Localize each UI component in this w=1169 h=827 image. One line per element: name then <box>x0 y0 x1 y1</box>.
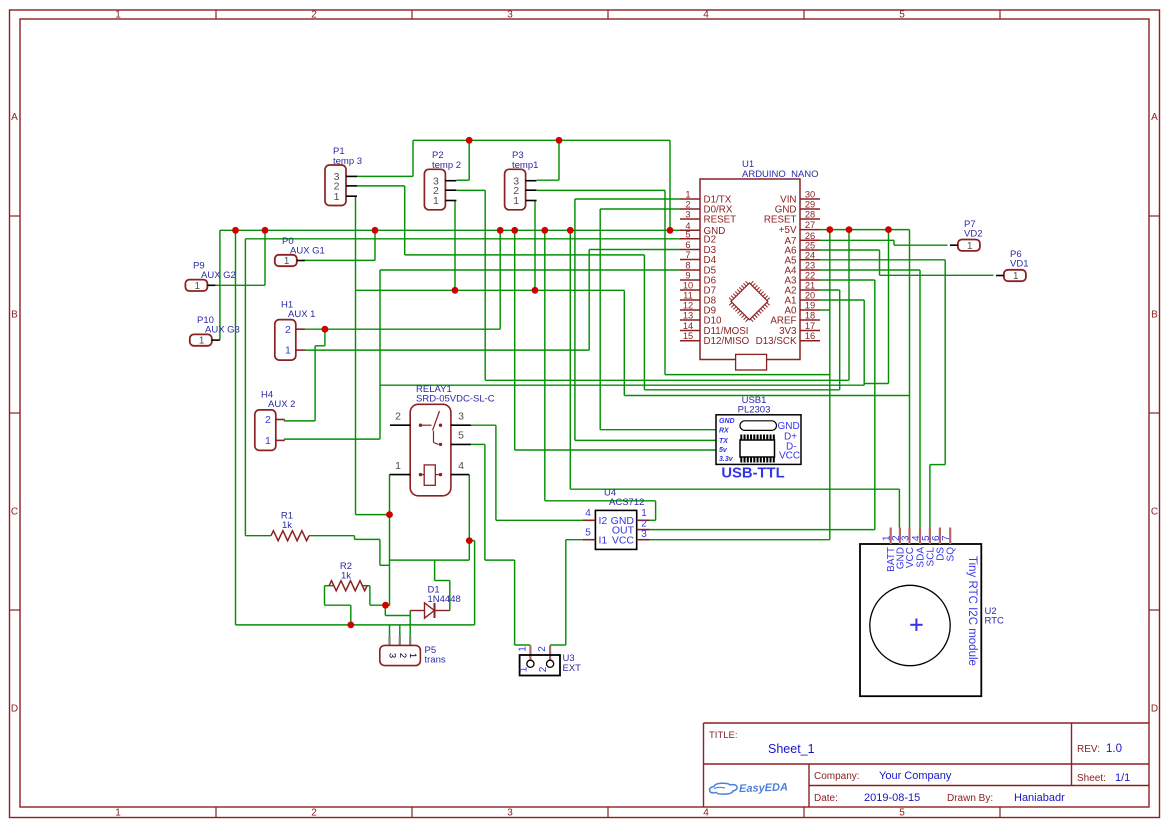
svg-text:2: 2 <box>311 10 317 21</box>
USB-TTL label <box>721 466 784 482</box>
connector P9 (AUX G2) <box>185 280 215 292</box>
svg-text:3: 3 <box>507 10 513 21</box>
svg-text:5: 5 <box>899 808 905 819</box>
svg-text:Date:: Date: <box>814 793 838 804</box>
P1 labels <box>333 146 362 167</box>
svg-text:1N4448: 1N4448 <box>428 594 461 605</box>
frame row labels <box>11 112 1158 715</box>
wire A7 to P7 <box>820 240 948 245</box>
svg-text:VD1: VD1 <box>1010 259 1028 270</box>
P9 labels <box>193 261 236 282</box>
svg-text:Sheet_1: Sheet_1 <box>768 742 815 756</box>
svg-text:7: 7 <box>685 250 690 260</box>
svg-text:I2: I2 <box>599 515 608 527</box>
wire R2 right net <box>363 586 390 606</box>
svg-text:19: 19 <box>805 301 815 311</box>
svg-text:1: 1 <box>199 336 204 347</box>
svg-text:13: 13 <box>683 311 693 321</box>
svg-text:D: D <box>1151 704 1158 715</box>
svg-text:1: 1 <box>115 10 121 21</box>
connector U3 EXT <box>517 645 560 675</box>
wire A5 to RTC SCL <box>820 260 945 528</box>
wire USB 5v net <box>515 230 716 450</box>
svg-text:5: 5 <box>899 10 905 21</box>
svg-text:TITLE:: TITLE: <box>709 730 738 741</box>
svg-text:2: 2 <box>537 646 548 652</box>
U2 plus mark <box>910 619 922 632</box>
frame column labels <box>115 10 905 819</box>
svg-text:EXT: EXT <box>563 663 582 674</box>
svg-text:1: 1 <box>518 666 529 672</box>
svg-text:20: 20 <box>805 291 815 301</box>
wire R1 right jog <box>309 536 390 566</box>
wire P3.1 riser <box>534 201 536 291</box>
svg-text:AUX 2: AUX 2 <box>268 399 295 410</box>
P6 labels <box>1010 249 1028 270</box>
svg-text:3: 3 <box>387 653 398 658</box>
wire D2 / R1 bus <box>245 239 680 536</box>
USB1 chip glyph <box>740 435 775 463</box>
svg-text:C: C <box>11 507 18 518</box>
U1 labels <box>742 159 819 180</box>
svg-text:SRD-05VDC-SL-C: SRD-05VDC-SL-C <box>416 394 495 405</box>
wire P0 AUX G1 net <box>303 230 375 260</box>
U2 battery circle <box>870 585 950 665</box>
U1 chip glyph (rotated QFP) <box>725 277 773 325</box>
svg-text:26: 26 <box>805 231 815 241</box>
wire P1.2 wire <box>357 186 645 255</box>
svg-text:5: 5 <box>585 528 591 539</box>
svg-text:A: A <box>11 112 18 123</box>
svg-text:2: 2 <box>641 519 647 530</box>
svg-text:1k: 1k <box>282 520 292 531</box>
svg-text:D10: D10 <box>704 316 723 327</box>
relay RELAY1 SRD-05VDC-SL-C body <box>410 404 451 496</box>
svg-text:3: 3 <box>458 411 464 423</box>
svg-text:1: 1 <box>641 508 647 519</box>
connector P6 (VD1) <box>996 270 1026 282</box>
svg-text:AUX G3: AUX G3 <box>205 325 240 336</box>
USB1 labels <box>738 395 771 416</box>
svg-text:28: 28 <box>805 210 815 220</box>
wire A2 to P1.2 net <box>644 255 839 390</box>
svg-text:22: 22 <box>805 271 815 281</box>
EasyEDA logo <box>709 781 788 796</box>
wire net top bus (P1.3/P2.3/P3.3) <box>413 140 670 230</box>
wire H1.2 net <box>304 230 500 345</box>
svg-text:1/1: 1/1 <box>1115 772 1130 784</box>
R2 labels <box>340 561 352 582</box>
svg-text:1: 1 <box>407 653 418 658</box>
svg-text:Your Company: Your Company <box>879 770 952 782</box>
U2 pin stubs <box>891 528 951 545</box>
svg-text:GND: GND <box>778 421 800 432</box>
svg-text:1: 1 <box>395 460 401 472</box>
svg-text:B: B <box>1151 310 1158 321</box>
svg-text:AUX G1: AUX G1 <box>290 246 325 257</box>
resistor R1 1k <box>271 531 309 541</box>
RELAY1 labels <box>416 384 495 405</box>
P0 labels <box>282 236 325 257</box>
wire A4 to RTC SDA <box>820 270 920 528</box>
wire GND to RTC <box>570 230 899 527</box>
wire relay pin1 drop <box>389 475 391 606</box>
svg-text:5v: 5v <box>719 447 728 454</box>
svg-text:7: 7 <box>941 535 952 541</box>
svg-text:29: 29 <box>805 200 815 210</box>
wire +5V row <box>820 229 910 231</box>
svg-text:SQ: SQ <box>946 547 957 562</box>
svg-text:21: 21 <box>805 281 815 291</box>
svg-text:EasyEDA: EasyEDA <box>739 781 788 795</box>
resistor R2 1k <box>329 581 367 591</box>
svg-text:D2: D2 <box>704 234 717 245</box>
P5 labels <box>425 645 446 666</box>
svg-text:1: 1 <box>115 808 121 819</box>
wire R2 left to GND bus <box>325 586 351 625</box>
svg-text:3.3v: 3.3v <box>719 456 734 463</box>
U2 module name <box>966 556 978 666</box>
svg-text:D12/MISO: D12/MISO <box>704 336 750 347</box>
wire relay pin5 to U3.1 <box>471 444 531 645</box>
svg-text:17: 17 <box>805 321 815 331</box>
svg-text:1: 1 <box>517 646 528 652</box>
wire GND bus lower <box>236 625 475 636</box>
P2 labels <box>432 150 461 171</box>
wire P2.1 riser <box>454 201 456 291</box>
svg-text:RESET: RESET <box>704 215 737 226</box>
wire bus-625 riser <box>235 230 237 625</box>
IC U4 ACS712 body <box>595 510 636 549</box>
op-amp U1 ARDUINO_NANO body <box>700 179 800 360</box>
svg-text:ARDUINO_NANO: ARDUINO_NANO <box>742 169 819 180</box>
svg-text:ACS712: ACS712 <box>609 497 644 508</box>
wire P10 riser to GND bus <box>219 230 221 340</box>
wire P2.3 wire <box>457 140 470 180</box>
svg-text:18: 18 <box>805 311 815 321</box>
svg-text:VCC: VCC <box>612 535 635 547</box>
svg-text:4: 4 <box>585 508 591 519</box>
svg-text:2: 2 <box>311 808 317 819</box>
P7 labels <box>964 219 982 240</box>
svg-text:25: 25 <box>805 241 815 251</box>
svg-text:temp 2: temp 2 <box>432 160 461 171</box>
svg-text:3: 3 <box>901 535 912 541</box>
svg-text:Sheet:: Sheet: <box>1077 773 1106 784</box>
svg-text:RESET: RESET <box>764 215 797 226</box>
svg-text:30: 30 <box>805 190 815 200</box>
RELAY1 coil <box>419 465 442 485</box>
svg-text:D4: D4 <box>704 255 717 266</box>
wire A3 to U4 OUT <box>650 280 875 530</box>
wire P2.2 wire to A2 <box>457 190 849 380</box>
svg-text:temp1: temp1 <box>512 160 538 171</box>
wire P1.3 wire <box>357 175 414 177</box>
svg-text:27: 27 <box>805 220 815 230</box>
wire GND to U4 <box>545 230 656 520</box>
svg-text:1: 1 <box>194 281 199 292</box>
wire R1 left lead <box>245 535 271 537</box>
svg-text:8: 8 <box>685 261 690 271</box>
wire +5V drop 888 <box>864 230 888 384</box>
svg-text:trans: trans <box>425 655 446 666</box>
connector H1 (AUX 1) <box>275 320 305 361</box>
D1 labels <box>428 585 461 606</box>
svg-text:1: 1 <box>1013 271 1018 282</box>
wire P3.2 wire <box>537 190 830 374</box>
svg-text:RX: RX <box>719 428 730 435</box>
connector H4 (AUX 2) <box>255 410 285 451</box>
U2 pin names <box>886 547 957 572</box>
svg-text:+5V: +5V <box>779 225 797 236</box>
svg-text:VCC: VCC <box>779 451 800 462</box>
wire +5V drop 849 <box>848 230 850 381</box>
svg-text:6: 6 <box>685 240 690 250</box>
svg-text:2: 2 <box>397 653 408 658</box>
H4 labels <box>261 390 295 411</box>
USB1 connector pill <box>740 421 777 431</box>
title block texts <box>709 730 1130 804</box>
wire USB TX net <box>575 199 716 440</box>
svg-text:1: 1 <box>967 241 972 252</box>
connector P10 (AUX G3) <box>190 334 220 346</box>
svg-text:15: 15 <box>683 331 693 341</box>
U1 pins <box>680 190 820 348</box>
svg-text:24: 24 <box>805 250 815 260</box>
svg-text:2019-08-15: 2019-08-15 <box>864 792 920 804</box>
P10 labels <box>197 315 240 336</box>
svg-text:1.0: 1.0 <box>1106 743 1122 755</box>
svg-text:Drawn By:: Drawn By: <box>947 793 993 804</box>
svg-text:D13/SCK: D13/SCK <box>756 336 797 347</box>
module U2 RTC body <box>860 544 981 696</box>
svg-text:GND: GND <box>719 418 735 425</box>
svg-text:AUX G2: AUX G2 <box>201 270 236 281</box>
svg-text:AREF: AREF <box>770 316 796 327</box>
wire H1.1 to D3 <box>304 250 680 351</box>
U4 pins <box>583 508 650 547</box>
svg-text:REV:: REV: <box>1077 744 1100 755</box>
wire H4.1 / D5 / A1 net <box>284 270 864 439</box>
U4 labels <box>604 488 644 509</box>
svg-text:3: 3 <box>685 210 690 220</box>
wire A6 to P6 <box>820 250 994 275</box>
svg-text:2: 2 <box>395 411 401 423</box>
svg-text:USB-TTL: USB-TTL <box>721 466 784 482</box>
diode D1 1N4448 <box>410 603 450 618</box>
svg-text:1: 1 <box>285 345 291 357</box>
wire P3.3 wire <box>537 140 559 180</box>
wire GND bus <box>220 229 680 231</box>
svg-text:VCC: VCC <box>905 547 916 568</box>
wire P9 riser <box>264 230 266 285</box>
svg-text:AUX 1: AUX 1 <box>288 309 315 320</box>
P3 labels <box>512 150 538 171</box>
svg-text:D: D <box>11 704 18 715</box>
U1 usb tab <box>736 354 767 370</box>
svg-text:12: 12 <box>683 301 693 311</box>
wire P9 wire <box>215 284 265 286</box>
svg-text:1k: 1k <box>341 571 351 582</box>
svg-text:Company:: Company: <box>814 771 860 782</box>
svg-text:1: 1 <box>433 195 439 207</box>
wire VCC bus 290 <box>356 290 910 395</box>
svg-text:Tiny RTC I2C module: Tiny RTC I2C module <box>966 556 978 666</box>
svg-text:TX: TX <box>719 438 729 445</box>
wire A0 wire <box>820 309 830 311</box>
svg-text:C: C <box>1151 507 1158 518</box>
wire +5V to RTC VCC <box>909 230 911 528</box>
U2 pin numbers <box>882 535 953 541</box>
svg-text:9: 9 <box>685 271 690 281</box>
svg-text:16: 16 <box>805 331 815 341</box>
svg-text:23: 23 <box>805 261 815 271</box>
wire P1.1 riser / relay coil net <box>356 196 390 514</box>
svg-text:temp 3: temp 3 <box>333 156 362 167</box>
svg-text:10: 10 <box>683 281 693 291</box>
connector P0 (AUX G1) <box>275 255 305 267</box>
svg-text:VD2: VD2 <box>964 229 982 240</box>
svg-text:3: 3 <box>507 808 513 819</box>
svg-text:1: 1 <box>334 191 340 203</box>
R1 labels <box>281 511 293 532</box>
connector P3 (temp1) <box>505 169 537 210</box>
H1 labels <box>281 300 315 321</box>
connector P7 (VD2) <box>950 240 980 252</box>
RELAY1 switch symbol <box>419 411 442 446</box>
svg-text:1: 1 <box>685 190 690 200</box>
svg-text:A: A <box>1151 112 1158 123</box>
connector P1 (temp 3) <box>325 165 357 206</box>
wire +5V drop to U4 VCC <box>650 230 830 540</box>
wire USB RX net <box>575 199 716 430</box>
svg-text:Haniabadr: Haniabadr <box>1014 792 1065 804</box>
svg-text:1: 1 <box>284 256 289 267</box>
wire H4 branch <box>284 346 325 421</box>
svg-text:PL2303: PL2303 <box>738 405 771 416</box>
svg-text:11: 11 <box>683 291 693 301</box>
svg-text:4: 4 <box>703 10 709 21</box>
svg-text:1: 1 <box>513 195 519 207</box>
svg-text:5: 5 <box>685 229 690 239</box>
RELAY1 pins <box>390 411 471 475</box>
wire P5.1 / D1 anode net <box>385 605 410 636</box>
title block frame <box>704 723 1150 807</box>
svg-text:B: B <box>11 310 18 321</box>
svg-text:4: 4 <box>703 808 709 819</box>
svg-text:2: 2 <box>685 200 690 210</box>
svg-text:4: 4 <box>458 460 464 472</box>
svg-text:14: 14 <box>683 321 693 331</box>
svg-text:1: 1 <box>265 435 271 447</box>
svg-text:2: 2 <box>285 324 291 336</box>
connector P5 (trans) <box>380 636 421 666</box>
wire relay pin3 to U4 I2 <box>471 425 583 520</box>
svg-text:2: 2 <box>538 666 549 672</box>
U2 labels <box>985 606 1004 627</box>
wire relay pin4 / D1 cathode net <box>390 475 475 625</box>
svg-text:5: 5 <box>458 430 464 442</box>
USB1 pin labels <box>719 418 800 463</box>
svg-text:I1: I1 <box>599 535 608 547</box>
svg-text:RTC: RTC <box>985 616 1004 627</box>
U3 labels <box>563 653 582 674</box>
connector P2 (temp 2) <box>424 169 456 210</box>
wire U3.2 to U4 I1 <box>550 540 583 645</box>
module USB1 PL2303 body <box>716 415 801 465</box>
svg-text:2: 2 <box>265 414 271 426</box>
svg-text:3: 3 <box>641 529 647 540</box>
